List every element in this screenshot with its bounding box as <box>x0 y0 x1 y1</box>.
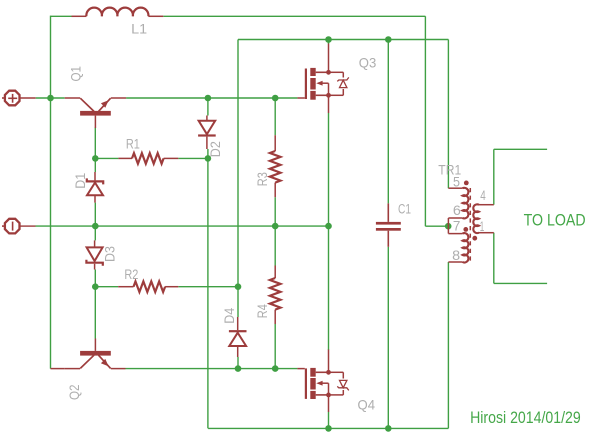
terminal + input <box>2 91 36 106</box>
wire base rail x95 Q1base-D1 <box>94 127 96 172</box>
transistor Q1 <box>65 98 126 128</box>
wire second top rail y39 <box>238 39 448 41</box>
svg-text:Q2: Q2 <box>67 385 82 401</box>
diode D2 <box>198 116 216 150</box>
wire pin5 rail <box>447 40 449 189</box>
text author date <box>470 408 581 427</box>
junction L <box>385 36 392 43</box>
wire D2 rail lower + x208 rail down to bottom bus <box>207 149 209 428</box>
junction O <box>445 223 452 230</box>
mosfet Q4 <box>297 350 348 413</box>
transformer TR1 <box>448 181 493 263</box>
svg-text:Hirosi 2014/01/29: Hirosi 2014/01/29 <box>470 408 581 427</box>
junction H <box>235 283 242 290</box>
wire R1 row <box>95 157 208 159</box>
junction F <box>325 223 332 230</box>
terminal - input <box>2 219 36 234</box>
pin label 5 <box>453 174 460 189</box>
label R2 <box>124 267 138 282</box>
wire R3R4 rail top <box>274 98 276 135</box>
wire bottom bus <box>208 427 448 429</box>
resistor R3 <box>270 135 281 197</box>
wire rail x238 down to D4 <box>237 40 239 318</box>
wire R2 row <box>95 286 238 288</box>
junction P <box>205 95 212 102</box>
svg-text:8: 8 <box>452 248 460 263</box>
wire minus row <box>36 225 329 227</box>
label Q2 <box>67 385 82 401</box>
wire D2 rail upper <box>207 98 209 116</box>
resistor R1 <box>118 153 178 164</box>
label D2 <box>208 141 223 157</box>
zener diode D1 <box>87 172 103 203</box>
svg-text:7: 7 <box>453 218 461 233</box>
label D4 <box>222 307 237 323</box>
wire C1 rail bottom <box>387 247 389 429</box>
label L1 <box>131 22 147 37</box>
svg-text:TO LOAD: TO LOAD <box>524 211 586 229</box>
svg-text:C1: C1 <box>398 202 411 217</box>
wire R3R4 rail bottom <box>274 324 276 369</box>
label R1 <box>126 136 140 151</box>
diode D4 <box>229 317 247 357</box>
junction J <box>272 365 279 372</box>
label C1 <box>398 202 411 217</box>
zener diode D3 <box>86 240 102 269</box>
capacitor C1 <box>376 203 401 246</box>
svg-text:R3: R3 <box>255 172 270 186</box>
wire top rail from L1 to right <box>51 15 426 17</box>
label Q4 <box>358 397 376 413</box>
wire Q4 source stub <box>328 412 330 428</box>
wire Q2 emitter row <box>126 368 298 370</box>
junction G <box>92 283 99 290</box>
wire Q1 top row <box>36 97 298 99</box>
label D1 <box>73 173 88 189</box>
label R4 <box>255 304 270 318</box>
wire load bottom <box>494 233 547 284</box>
svg-text:Q3: Q3 <box>359 55 377 71</box>
junction K <box>325 36 332 43</box>
junction A <box>47 95 54 102</box>
wire R2 to Q2 base <box>94 287 96 339</box>
wire left rail vertical <box>50 16 52 369</box>
wire load top <box>494 149 547 204</box>
svg-text:D4: D4 <box>222 307 237 323</box>
svg-text:L1: L1 <box>131 22 147 37</box>
label R3 <box>255 172 270 186</box>
pin label 1 <box>480 219 485 234</box>
pin label 6 <box>453 203 461 218</box>
text TO LOAD <box>524 211 586 229</box>
svg-text:Q1: Q1 <box>68 66 83 82</box>
junction D <box>92 223 99 230</box>
resistor R4 <box>270 266 281 325</box>
junction B <box>92 155 99 162</box>
junction N <box>385 425 392 432</box>
svg-text:R4: R4 <box>255 304 270 318</box>
svg-text:4: 4 <box>480 188 486 203</box>
wire pin8 rail <box>447 262 449 428</box>
svg-text:Q4: Q4 <box>358 397 376 413</box>
wire Q3 drain stub <box>328 40 330 45</box>
wire D1-D3 segment <box>94 203 96 241</box>
svg-text:D3: D3 <box>103 246 118 262</box>
svg-text:R2: R2 <box>124 267 138 282</box>
wire D3-R2 segment <box>94 270 96 287</box>
svg-text:R1: R1 <box>126 136 140 151</box>
pin label 8 <box>452 248 460 263</box>
mosfet Q3 <box>297 44 348 114</box>
resistor R2 <box>118 281 178 292</box>
svg-text:5: 5 <box>453 174 460 189</box>
junction M <box>325 425 332 432</box>
label TR1 <box>438 161 461 177</box>
junction Q <box>272 95 279 102</box>
svg-text:D2: D2 <box>208 141 223 157</box>
wire C1 rail top <box>387 40 389 204</box>
wire D4 bottom segment <box>237 357 239 369</box>
pin label 4 <box>480 188 486 203</box>
transistor Q2 <box>51 339 126 369</box>
label D3 <box>103 246 118 262</box>
junction E <box>272 223 279 230</box>
wire Q3 source to Q4 drain rail <box>328 113 330 350</box>
inductor L1 <box>72 8 164 17</box>
junction I <box>235 365 242 372</box>
label Q3 <box>359 55 377 71</box>
label Q1 <box>68 66 83 82</box>
junction C <box>205 155 212 162</box>
svg-text:D1: D1 <box>73 173 88 189</box>
pin label 7 <box>453 218 461 233</box>
wire R3R4 rail mid <box>274 197 276 265</box>
wire rail x425 to center tap <box>425 16 448 226</box>
svg-text:6: 6 <box>453 203 461 218</box>
svg-text:1: 1 <box>480 219 485 234</box>
